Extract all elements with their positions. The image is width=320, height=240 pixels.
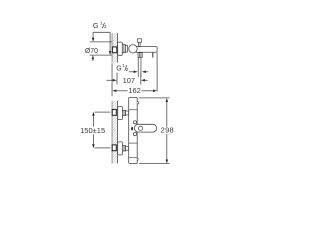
svg-text:2: 2: [126, 67, 129, 73]
lever pivot circle: [139, 126, 143, 130]
svg-text:162: 162: [128, 86, 141, 95]
svg-text:1: 1: [100, 21, 103, 27]
extension lines for 107: [117, 73, 141, 85]
wall escutcheon upper (front): [118, 107, 123, 120]
wall section (bottom view) hatched band: [112, 101, 118, 164]
arrow Ø70 bottom: [92, 55, 95, 61]
svg-text:G: G: [93, 22, 99, 30]
dimension 107: [107, 76, 148, 85]
label G1/2 (top): [93, 21, 107, 31]
lever base boss upper: [133, 121, 136, 124]
in-wall elbow fitting lower: [112, 145, 116, 151]
label G1/2 (hose): [116, 63, 129, 73]
nipple upper: [126, 111, 129, 115]
svg-text:Ø70: Ø70: [85, 48, 98, 55]
temperature dot on body: [131, 127, 133, 131]
leader line of G1/2 (top): [92, 32, 112, 55]
svg-text:298: 298: [161, 126, 174, 135]
body internal line lower: [129, 157, 138, 159]
diverter knob stem (top view): [139, 42, 141, 46]
svg-text:107: 107: [123, 76, 136, 85]
dimension 298: [161, 98, 174, 164]
hose nipple lines: [138, 57, 141, 77]
union nut upper (front): [122, 110, 125, 115]
extension lines of escutcheon diameter (top view): [90, 42, 112, 55]
union nut lower (front): [122, 146, 125, 151]
union nut (top view): [122, 45, 125, 53]
wall escutcheon (top view): [118, 42, 123, 55]
dimension 150±15: [80, 112, 105, 148]
body internal line mid-lower: [129, 142, 138, 144]
in-wall elbow fitting (top view): [112, 47, 116, 53]
mixer body (front): [129, 97, 138, 163]
dimension 162: [112, 86, 157, 95]
spout (top view): [136, 47, 158, 53]
svg-text:G: G: [116, 65, 122, 73]
diverter knob bump (front, right edge): [137, 101, 138, 104]
hand shower hose nut (top view): [138, 53, 142, 58]
extension lines 298: [139, 98, 170, 164]
nipple lower: [126, 146, 129, 150]
body ring (top view): [125, 45, 127, 52]
svg-text:150±15: 150±15: [80, 126, 105, 135]
lever handle capsule (front): [134, 124, 156, 132]
wall section (top view) hatched band: [112, 33, 118, 62]
valve body circle (top view): [129, 45, 137, 53]
diverter knob cap (top view): [137, 39, 141, 43]
extension line right for 162 (below spout tip): [156, 53, 158, 92]
svg-text:2: 2: [104, 24, 107, 30]
lower bump (front, right edge): [137, 158, 138, 160]
spout outlet stub: [152, 52, 154, 57]
arrows G1/2 hose: [129, 71, 149, 74]
lever base boss lower: [133, 133, 136, 136]
body internal line at upper inlet: [129, 109, 138, 111]
extension line left for 162 (wall back line): [111, 63, 113, 96]
wall escutcheon lower (front): [118, 142, 123, 155]
svg-text:1: 1: [122, 63, 125, 69]
extension lines 150±15: [95, 112, 111, 148]
in-wall elbow fitting upper: [112, 110, 116, 116]
